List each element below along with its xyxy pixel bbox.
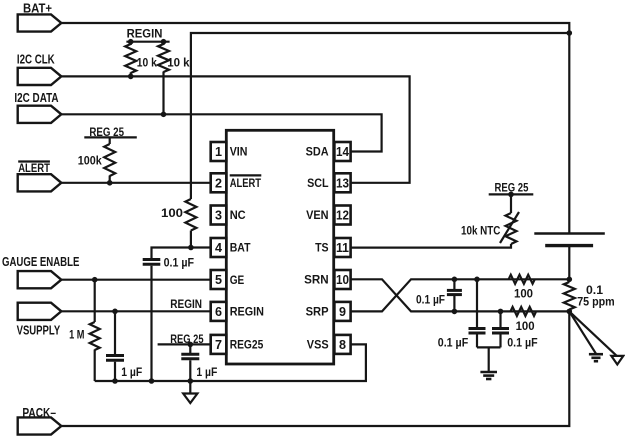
svg-text:GE: GE <box>230 273 245 287</box>
svg-text:0.1 µF: 0.1 µF <box>507 336 537 350</box>
svg-text:7: 7 <box>215 338 222 352</box>
svg-text:SCL: SCL <box>307 176 329 190</box>
svg-text:REG 25: REG 25 <box>89 125 124 139</box>
svg-text:10 k: 10 k <box>137 56 157 70</box>
svg-text:NC: NC <box>230 208 246 222</box>
svg-text:REGIN: REGIN <box>170 297 202 311</box>
svg-text:PACK–: PACK– <box>22 406 56 420</box>
svg-text:REGIN: REGIN <box>230 305 264 319</box>
svg-text:75 ppm: 75 ppm <box>577 295 615 309</box>
svg-text:I2C DATA: I2C DATA <box>14 91 58 105</box>
svg-text:12: 12 <box>336 209 349 223</box>
svg-text:9: 9 <box>339 305 346 319</box>
svg-text:8: 8 <box>339 338 346 352</box>
svg-text:1 M: 1 M <box>69 327 84 341</box>
svg-text:REG 25: REG 25 <box>495 181 529 195</box>
svg-text:VEN: VEN <box>306 208 329 222</box>
svg-text:1 µF: 1 µF <box>196 365 217 379</box>
svg-text:REGIN: REGIN <box>127 27 163 41</box>
svg-text:REG25: REG25 <box>230 338 264 352</box>
svg-text:BAT: BAT <box>230 241 251 255</box>
svg-text:10 k: 10 k <box>167 56 190 70</box>
svg-text:TS: TS <box>315 241 329 255</box>
svg-text:0.1 µF: 0.1 µF <box>164 255 194 269</box>
svg-text:100: 100 <box>514 287 533 301</box>
svg-text:4: 4 <box>215 241 222 255</box>
svg-text:0.1 µF: 0.1 µF <box>438 336 468 350</box>
svg-text:VIN: VIN <box>230 145 248 159</box>
svg-text:SDA: SDA <box>306 145 329 159</box>
svg-text:I2C CLK: I2C CLK <box>17 52 55 66</box>
svg-text:BAT+: BAT+ <box>23 1 52 15</box>
svg-text:3: 3 <box>215 209 222 223</box>
svg-text:SRN: SRN <box>304 273 329 287</box>
svg-text:5: 5 <box>215 273 222 287</box>
svg-text:11: 11 <box>336 241 349 255</box>
svg-text:REG 25: REG 25 <box>170 332 204 346</box>
svg-text:0.1 µF: 0.1 µF <box>416 293 445 307</box>
svg-text:1: 1 <box>215 145 222 159</box>
svg-text:100k: 100k <box>78 153 102 167</box>
svg-text:10: 10 <box>336 273 349 287</box>
svg-text:14: 14 <box>336 145 349 159</box>
svg-text:13: 13 <box>336 176 349 190</box>
svg-text:VSS: VSS <box>307 338 329 352</box>
svg-text:1 µF: 1 µF <box>121 365 142 379</box>
svg-text:SRP: SRP <box>306 305 329 319</box>
svg-text:2: 2 <box>215 176 222 190</box>
svg-text:6: 6 <box>215 305 222 319</box>
svg-text:100: 100 <box>161 206 183 220</box>
svg-text:100: 100 <box>516 319 535 333</box>
svg-text:GAUGE ENABLE: GAUGE ENABLE <box>2 255 79 269</box>
svg-text:ALERT: ALERT <box>230 176 262 190</box>
svg-text:ALERT: ALERT <box>18 161 50 175</box>
svg-text:10k NTC: 10k NTC <box>461 224 501 238</box>
svg-text:VSUPPLY: VSUPPLY <box>17 324 61 338</box>
